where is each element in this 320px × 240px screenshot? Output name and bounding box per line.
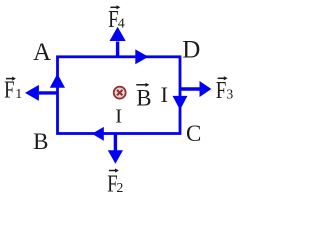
svg-text:A: A (33, 39, 51, 66)
svg-text:B: B (33, 129, 48, 154)
svg-text:1: 1 (15, 87, 22, 102)
svg-text:D: D (182, 37, 200, 64)
svg-text:C: C (186, 121, 201, 146)
svg-text:I: I (161, 82, 168, 107)
svg-text:F: F (216, 77, 227, 104)
svg-text:4: 4 (118, 16, 125, 31)
svg-text:I: I (115, 106, 122, 128)
svg-text:F: F (4, 77, 15, 104)
svg-text:3: 3 (226, 88, 233, 103)
svg-text:B: B (136, 85, 151, 110)
svg-text:2: 2 (116, 181, 123, 196)
